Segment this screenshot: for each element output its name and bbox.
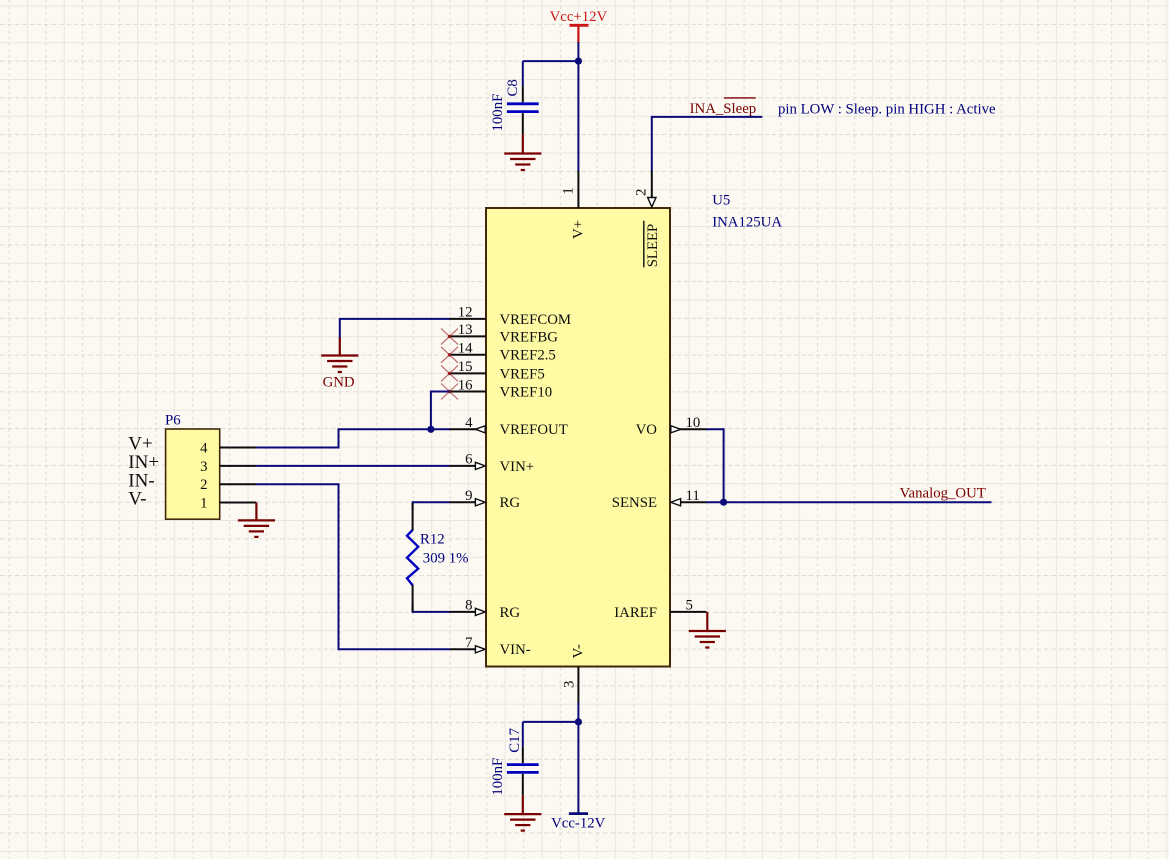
pin 5 IAREF	[614, 598, 706, 621]
pin 7 VIN-	[450, 635, 531, 658]
svg-text:C17: C17	[507, 728, 523, 753]
no-ERC cross pin 14	[441, 347, 458, 363]
svg-text:3: 3	[200, 459, 207, 475]
svg-text:14: 14	[458, 341, 473, 357]
pin 9 RG	[450, 488, 521, 511]
svg-text:6: 6	[465, 452, 472, 468]
no-ERC cross pin 15	[441, 365, 458, 381]
svg-text:4: 4	[465, 415, 473, 431]
svg-text:VIN-: VIN-	[500, 642, 531, 658]
svg-text:U5: U5	[712, 192, 730, 208]
svg-text:VO: VO	[636, 422, 658, 438]
wire SENSE to Vanalog_OUT	[707, 501, 992, 503]
pin 11 SENSE	[612, 488, 707, 511]
svg-text:INA_Sleep: INA_Sleep	[690, 101, 757, 117]
pin 2 SLEEP	[634, 171, 662, 267]
svg-text:4: 4	[200, 440, 208, 456]
svg-text:2: 2	[634, 189, 650, 196]
wire RG top (pin 9)	[413, 501, 450, 510]
wire VO (pin 10) to SENSE junction	[707, 428, 724, 502]
wire junction to C17	[523, 721, 580, 723]
wire INA_Sleep to pin 2	[652, 116, 763, 172]
svg-text:100nF: 100nF	[490, 94, 506, 132]
svg-text:V-: V-	[128, 489, 146, 510]
pin 8 RG	[450, 598, 521, 621]
wire P6.3 to VIN+ (pin 6)	[256, 465, 449, 467]
svg-text:7: 7	[465, 635, 472, 651]
svg-text:1: 1	[560, 187, 576, 194]
svg-text:309 1%: 309 1%	[423, 550, 469, 566]
wire pin 16 down to VREFOUT net	[431, 391, 450, 430]
svg-text:16: 16	[458, 377, 473, 393]
svg-text:INA125UA: INA125UA	[712, 215, 782, 231]
svg-text:pin LOW : Sleep. pin HIGH : Ac: pin LOW : Sleep. pin HIGH : Active	[778, 102, 996, 118]
connector P6 pin 3	[200, 459, 256, 475]
svg-text:VIN+: VIN+	[500, 459, 535, 475]
svg-text:SLEEP: SLEEP	[645, 224, 661, 268]
svg-text:2: 2	[200, 477, 207, 493]
svg-text:GND: GND	[323, 375, 355, 391]
svg-text:12: 12	[458, 305, 473, 321]
pin 12 VREFCOM	[450, 305, 572, 328]
connector P6 pin 4	[200, 440, 256, 456]
svg-text:V+: V+	[570, 220, 586, 239]
pin 16 VREF10	[450, 377, 553, 400]
no-ERC cross pin 16	[441, 384, 458, 400]
svg-text:Vanalog_OUT: Vanalog_OUT	[900, 486, 986, 502]
resistor R12	[407, 503, 418, 612]
pin 10 VO	[636, 415, 707, 438]
svg-text:VREF10: VREF10	[500, 384, 553, 400]
power symbol Vcc-12V	[551, 814, 606, 832]
svg-text:VREF2.5: VREF2.5	[500, 348, 556, 364]
pin 3 V-	[562, 644, 587, 703]
svg-text:C8: C8	[505, 79, 521, 96]
svg-text:10: 10	[686, 415, 701, 431]
power symbol Vcc+12V	[550, 9, 608, 43]
svg-text:RG: RG	[500, 495, 521, 511]
svg-text:100nF: 100nF	[490, 758, 506, 796]
svg-text:VREFBG: VREFBG	[500, 329, 559, 345]
svg-text:P6: P6	[165, 413, 181, 429]
ground GND	[321, 338, 358, 373]
op-amp U5 INA125UA body	[486, 208, 670, 667]
junction V-/C17	[575, 718, 582, 725]
no-ERC cross pin 13	[441, 328, 458, 344]
svg-text:R12: R12	[420, 532, 445, 548]
ground below C17	[504, 795, 541, 830]
pin 6 VIN+	[450, 452, 535, 475]
wire P6.2 to VIN- (pin 7)	[256, 483, 449, 649]
ground on P6 pin 1	[238, 503, 275, 537]
wire Vcc+12V to pin 1	[577, 42, 579, 172]
capacitor C8	[490, 61, 539, 135]
svg-text:1: 1	[200, 495, 207, 511]
svg-text:Vcc-12V: Vcc-12V	[551, 816, 606, 832]
wire pin 12 to GND	[340, 318, 450, 339]
wire P6.4 to VREFOUT (pin 4)	[256, 429, 449, 448]
svg-text:RG: RG	[500, 605, 521, 621]
svg-text:13: 13	[458, 322, 473, 338]
junction Vcc/C8	[575, 58, 582, 65]
pin 14 VREF2.5	[450, 341, 556, 364]
connector P6 body	[166, 429, 220, 519]
svg-text:Vcc+12V: Vcc+12V	[550, 9, 608, 25]
wire pin 3 to Vcc-12V	[577, 702, 579, 813]
pin 1 V+	[560, 171, 586, 239]
svg-text:SENSE: SENSE	[612, 495, 657, 511]
pin 15 VREF5	[450, 359, 545, 382]
svg-text:VREFOUT: VREFOUT	[500, 422, 568, 438]
wire RG bottom (pin 8)	[413, 604, 450, 613]
connector P6 pin 1	[200, 495, 256, 511]
junction SENSE/VO	[720, 499, 727, 506]
pin 4 VREFOUT	[450, 415, 568, 438]
connector P6 pin 2	[200, 477, 256, 493]
pin 13 VREFBG	[450, 322, 559, 345]
svg-text:8: 8	[465, 598, 472, 614]
ground on IAREF (pin 5)	[689, 612, 726, 648]
svg-text:9: 9	[465, 488, 472, 504]
svg-text:15: 15	[458, 359, 473, 375]
capacitor C17	[490, 722, 539, 796]
junction VREFOUT	[427, 426, 434, 433]
svg-text:IAREF: IAREF	[614, 605, 657, 621]
svg-text:V-: V-	[570, 644, 586, 658]
svg-text:3: 3	[562, 681, 578, 688]
wire junction to C8	[523, 60, 580, 62]
svg-text:VREF5: VREF5	[500, 366, 545, 382]
ground below C8	[504, 135, 541, 170]
svg-text:VREFCOM: VREFCOM	[500, 312, 572, 328]
svg-text:5: 5	[686, 598, 693, 614]
svg-text:11: 11	[686, 488, 700, 504]
net label INA_Sleep	[690, 98, 757, 117]
